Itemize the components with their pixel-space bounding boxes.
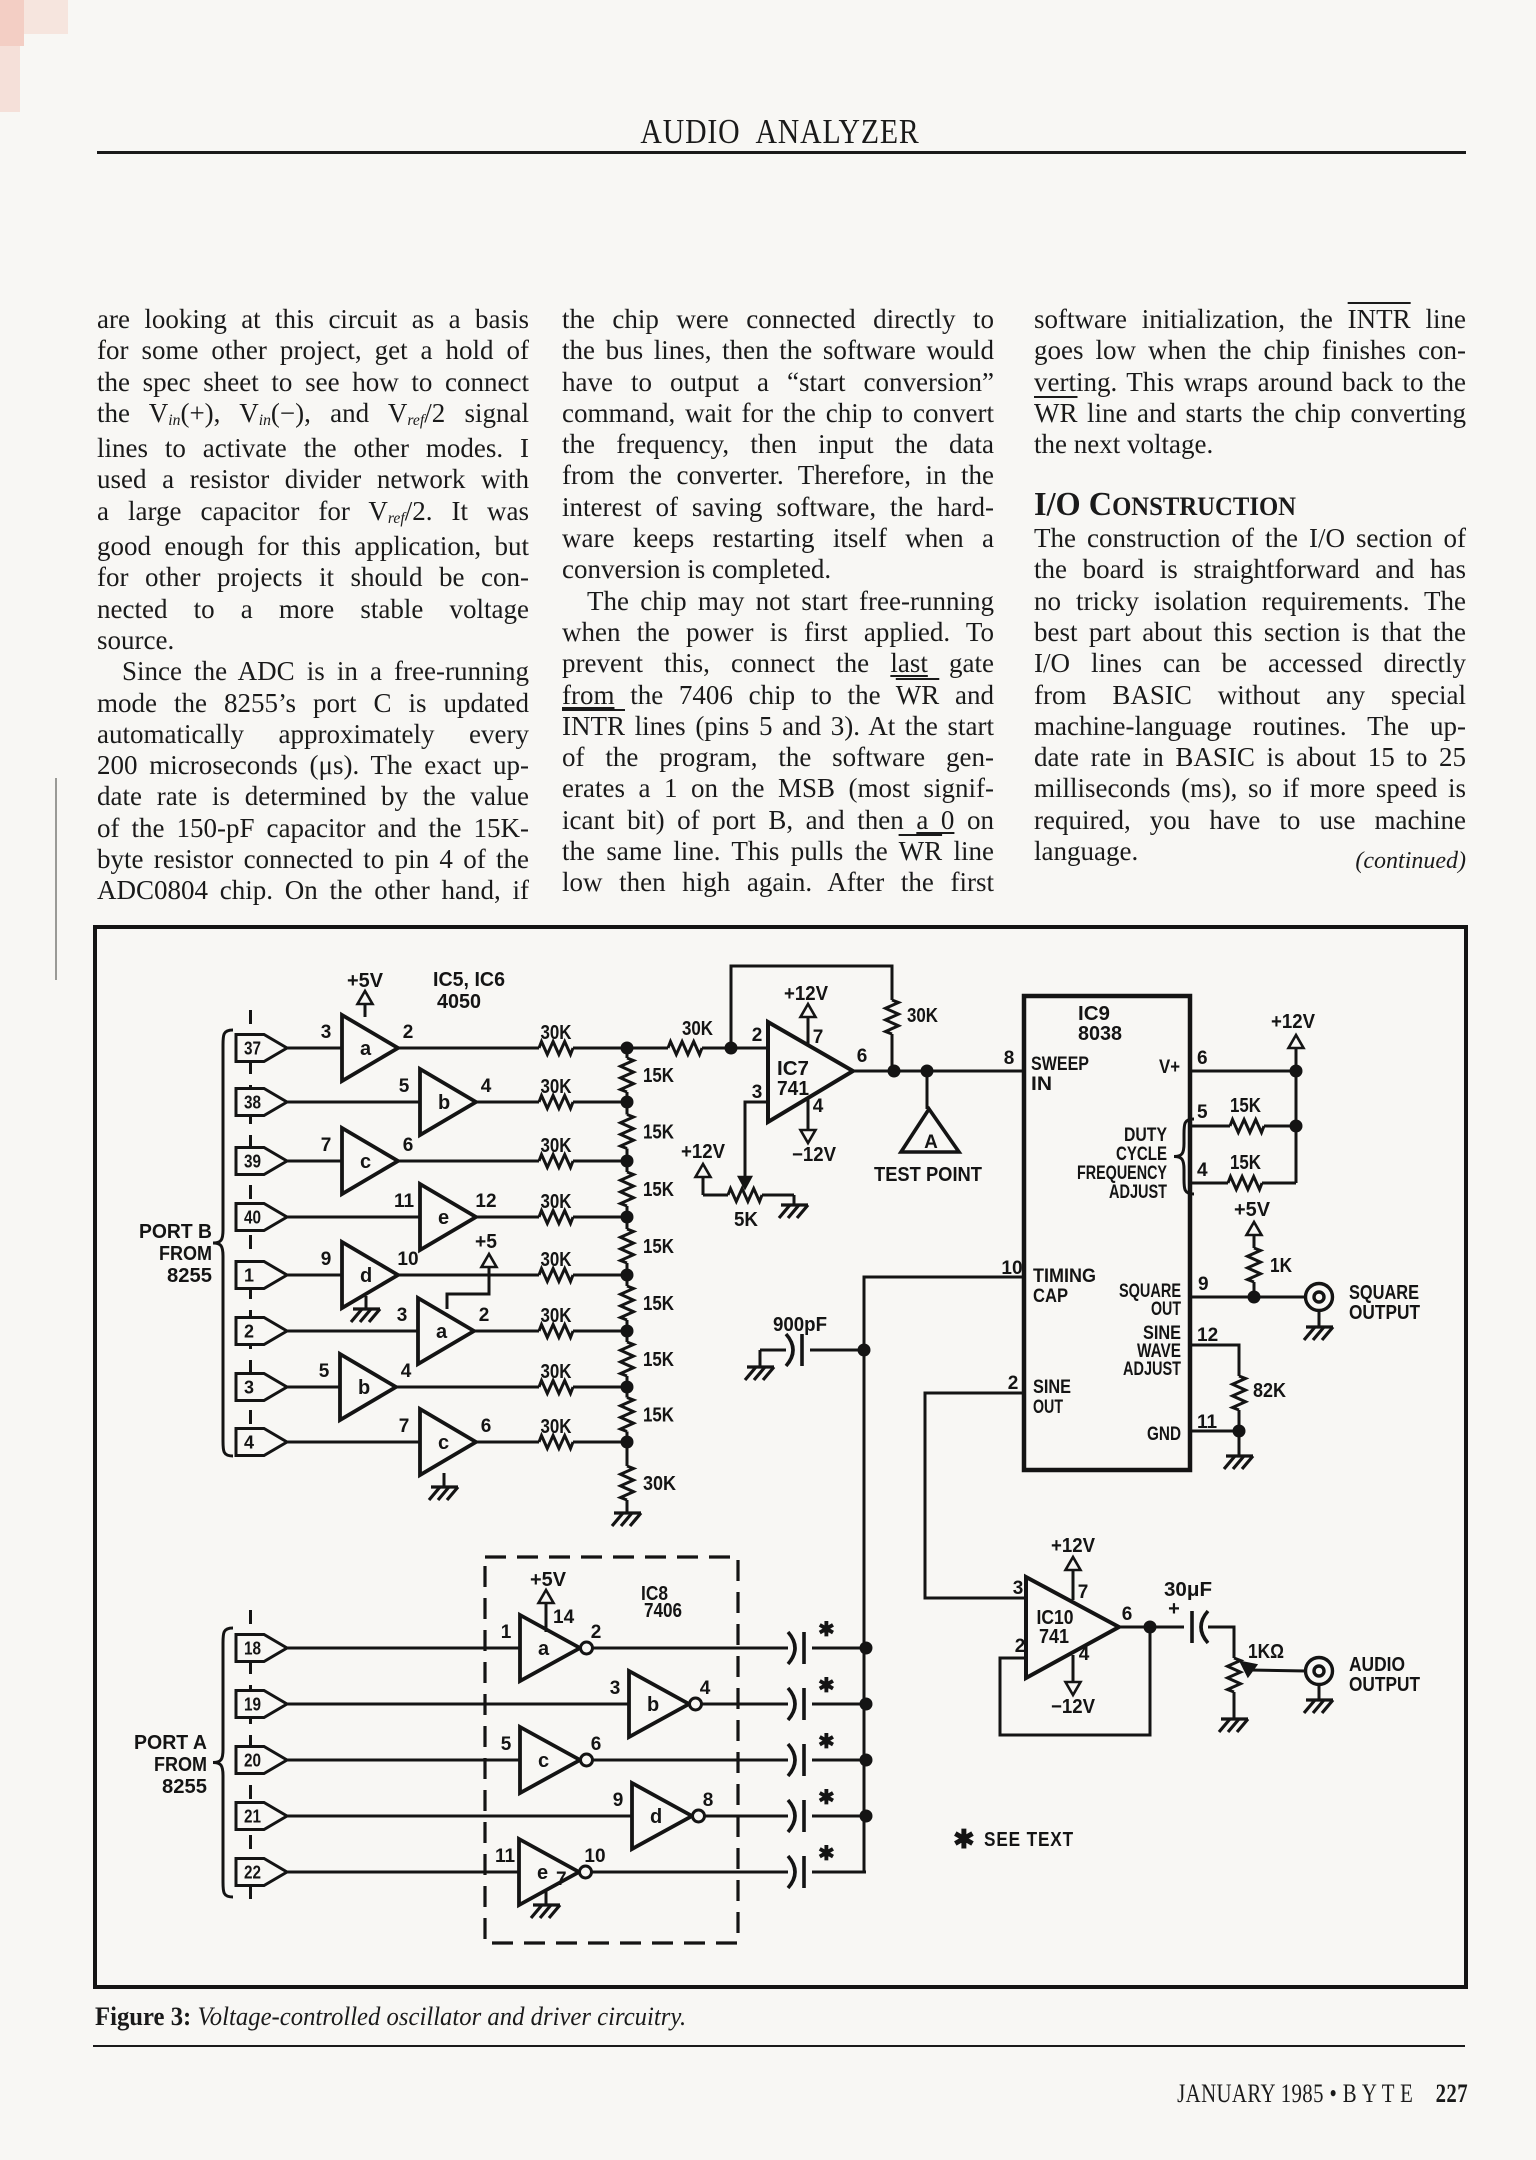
svg-text:10: 10 [397, 1249, 418, 1270]
svg-text:14: 14 [553, 1607, 575, 1628]
svg-text:30K: 30K [682, 1018, 713, 1040]
svg-text:15K: 15K [643, 1349, 674, 1371]
svg-text:22: 22 [244, 1863, 261, 1883]
svg-text:4: 4 [1079, 1644, 1090, 1665]
svg-text:12: 12 [475, 1191, 496, 1212]
svg-text:OUT: OUT [1151, 1298, 1181, 1320]
svg-text:FROM: FROM [154, 1754, 207, 1776]
svg-text:30K: 30K [541, 1135, 572, 1157]
svg-text:PORT B: PORT B [139, 1221, 212, 1243]
svg-text:e: e [438, 1207, 449, 1229]
svg-text:TIMING: TIMING [1033, 1265, 1096, 1287]
svg-text:2: 2 [403, 1022, 414, 1043]
svg-text:+5V: +5V [347, 970, 384, 992]
svg-text:30K: 30K [541, 1361, 572, 1383]
svg-text:IN: IN [1031, 1073, 1052, 1095]
svg-text:6: 6 [591, 1734, 602, 1755]
svg-text:12: 12 [1197, 1325, 1218, 1346]
svg-text:7: 7 [321, 1135, 332, 1156]
svg-text:5K: 5K [734, 1209, 759, 1231]
svg-text:15K: 15K [1230, 1152, 1261, 1174]
svg-text:19: 19 [244, 1695, 261, 1715]
svg-text:3: 3 [321, 1022, 332, 1043]
svg-text:✱: ✱ [818, 1787, 835, 1809]
svg-text:15K: 15K [643, 1065, 674, 1087]
svg-text:30K: 30K [541, 1416, 572, 1438]
svg-text:20: 20 [244, 1751, 261, 1771]
svg-text:40: 40 [244, 1208, 261, 1228]
svg-text:3: 3 [752, 1082, 763, 1103]
svg-text:9: 9 [1198, 1274, 1209, 1295]
svg-text:6: 6 [1122, 1604, 1133, 1625]
svg-text:15K: 15K [643, 1122, 674, 1144]
svg-text:9: 9 [321, 1249, 332, 1270]
svg-text:30K: 30K [541, 1249, 572, 1271]
svg-text:✱: ✱ [818, 1619, 835, 1641]
svg-text:39: 39 [244, 1152, 261, 1172]
svg-text:SINE: SINE [1033, 1376, 1071, 1398]
svg-text:+: + [1168, 1598, 1180, 1620]
svg-text:7406: 7406 [644, 1600, 682, 1622]
svg-text:+5V: +5V [530, 1569, 567, 1591]
svg-text:30K: 30K [541, 1191, 572, 1213]
svg-text:741: 741 [1039, 1626, 1069, 1648]
svg-text:21: 21 [244, 1807, 261, 1827]
svg-text:SWEEP: SWEEP [1031, 1053, 1089, 1075]
svg-text:c: c [438, 1432, 449, 1454]
svg-text:3: 3 [244, 1378, 254, 1398]
svg-text:+12V: +12V [1271, 1011, 1316, 1033]
svg-text:IC9: IC9 [1078, 1003, 1110, 1025]
svg-text:OUTPUT: OUTPUT [1349, 1301, 1420, 1324]
svg-text:2: 2 [752, 1025, 763, 1046]
svg-text:6: 6 [403, 1135, 414, 1156]
svg-text:9: 9 [613, 1790, 624, 1811]
svg-text:82K: 82K [1253, 1380, 1286, 1402]
svg-text:2: 2 [1008, 1373, 1019, 1394]
svg-text:b: b [647, 1694, 659, 1716]
svg-text:3: 3 [610, 1678, 621, 1699]
svg-text:38: 38 [244, 1093, 261, 1113]
svg-text:IC7: IC7 [777, 1058, 809, 1080]
svg-text:1K: 1K [1270, 1255, 1292, 1277]
svg-text:✱: ✱ [953, 1824, 975, 1854]
svg-text:30K: 30K [907, 1005, 938, 1027]
svg-text:IC5, IC6: IC5, IC6 [433, 969, 505, 991]
svg-text:741: 741 [777, 1078, 809, 1100]
svg-text:4: 4 [401, 1361, 412, 1382]
svg-text:ADJUST: ADJUST [1123, 1358, 1181, 1380]
svg-text:+5: +5 [475, 1231, 497, 1253]
svg-text:a: a [436, 1321, 448, 1343]
svg-text:−12V: −12V [1051, 1696, 1096, 1718]
svg-text:TEST POINT: TEST POINT [874, 1164, 982, 1186]
svg-text:11: 11 [394, 1191, 415, 1212]
svg-text:8038: 8038 [1078, 1023, 1122, 1045]
svg-text:8255: 8255 [162, 1776, 207, 1798]
svg-text:A: A [924, 1132, 938, 1153]
svg-text:2: 2 [1015, 1636, 1026, 1657]
svg-text:d: d [360, 1265, 372, 1287]
svg-text:+12V: +12V [681, 1141, 726, 1163]
svg-text:FROM: FROM [159, 1243, 212, 1265]
svg-text:4: 4 [1197, 1160, 1208, 1181]
svg-text:+5V: +5V [1234, 1199, 1271, 1221]
svg-text:+12V: +12V [784, 983, 829, 1005]
svg-text:OUT: OUT [1033, 1396, 1063, 1418]
svg-text:PORT A: PORT A [134, 1732, 207, 1754]
svg-text:37: 37 [244, 1039, 261, 1059]
svg-text:7: 7 [399, 1416, 410, 1437]
svg-text:ADJUST: ADJUST [1109, 1181, 1167, 1203]
svg-text:1: 1 [244, 1266, 254, 1286]
svg-text:10: 10 [584, 1846, 605, 1867]
svg-text:5: 5 [319, 1361, 330, 1382]
svg-text:b: b [358, 1377, 370, 1399]
svg-text:2: 2 [479, 1305, 490, 1326]
svg-text:11: 11 [495, 1846, 516, 1867]
svg-text:1: 1 [501, 1622, 512, 1643]
svg-text:4: 4 [700, 1678, 711, 1699]
svg-text:15K: 15K [643, 1236, 674, 1258]
svg-text:15K: 15K [643, 1293, 674, 1315]
svg-text:3: 3 [397, 1305, 408, 1326]
svg-text:2: 2 [244, 1322, 254, 1342]
svg-text:4: 4 [481, 1076, 492, 1097]
svg-text:4: 4 [244, 1433, 254, 1453]
svg-text:V+: V+ [1159, 1056, 1180, 1078]
svg-text:900pF: 900pF [773, 1314, 827, 1336]
svg-text:15K: 15K [643, 1405, 674, 1427]
svg-text:7: 7 [556, 1869, 567, 1890]
svg-text:15K: 15K [643, 1179, 674, 1201]
svg-text:✱: ✱ [818, 1731, 835, 1753]
svg-text:5: 5 [501, 1734, 512, 1755]
svg-text:GND: GND [1147, 1423, 1181, 1445]
svg-text:6: 6 [481, 1416, 492, 1437]
svg-text:30K: 30K [643, 1473, 676, 1495]
svg-text:15K: 15K [1230, 1095, 1261, 1117]
svg-text:30K: 30K [541, 1076, 572, 1098]
svg-text:✱: ✱ [818, 1675, 835, 1697]
svg-text:18: 18 [244, 1639, 261, 1659]
svg-text:7: 7 [813, 1027, 824, 1048]
svg-text:b: b [438, 1092, 450, 1114]
svg-text:4: 4 [813, 1096, 824, 1117]
svg-text:2: 2 [591, 1622, 602, 1643]
svg-text:4050: 4050 [437, 991, 481, 1013]
svg-text:+12V: +12V [1051, 1535, 1096, 1557]
svg-text:CAP: CAP [1033, 1285, 1068, 1307]
svg-text:e: e [537, 1862, 548, 1884]
svg-text:30K: 30K [541, 1022, 572, 1044]
svg-text:c: c [360, 1151, 371, 1173]
svg-text:5: 5 [1197, 1102, 1208, 1123]
svg-text:8: 8 [703, 1790, 714, 1811]
svg-text:7: 7 [1078, 1582, 1089, 1603]
svg-text:6: 6 [857, 1046, 868, 1067]
svg-text:a: a [538, 1638, 550, 1660]
svg-text:−12V: −12V [792, 1144, 837, 1166]
svg-text:3: 3 [1013, 1578, 1024, 1599]
svg-text:OUTPUT: OUTPUT [1349, 1673, 1420, 1696]
svg-text:a: a [360, 1038, 372, 1060]
svg-text:d: d [650, 1806, 662, 1828]
svg-text:✱: ✱ [818, 1843, 835, 1865]
svg-text:5: 5 [399, 1076, 410, 1097]
svg-text:1KΩ: 1KΩ [1248, 1641, 1284, 1663]
svg-text:8255: 8255 [167, 1265, 212, 1287]
svg-text:8: 8 [1004, 1048, 1015, 1069]
svg-text:6: 6 [1197, 1048, 1208, 1069]
svg-text:c: c [538, 1750, 549, 1772]
svg-text:SEE TEXT: SEE TEXT [984, 1829, 1074, 1851]
svg-text:30K: 30K [541, 1305, 572, 1327]
